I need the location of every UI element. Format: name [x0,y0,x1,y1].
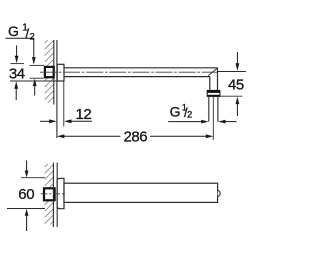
svg-text:45: 45 [228,77,244,94]
arm body (plan view) [64,183,218,202]
nut top extension line [30,64,45,66]
svg-text:G: G [170,104,181,120]
thread nut (plan view) [44,188,55,200]
dimension 12 right arrow [64,119,92,123]
outlet centerline (vertical dash-dot) [212,96,214,140]
dimension 34 upper arrow [15,46,19,64]
thread centerline (dash-dot, plan view) [41,193,67,195]
flange bottom extension line [10,80,57,82]
dimension 286 line with arrows [57,134,213,138]
dimension 45 top extension line [218,71,247,73]
svg-text:34: 34 [9,66,25,83]
outlet pipe left line [208,96,210,122]
dimension 45 lower arrow [236,97,240,116]
wall hatching (plan view) [45,164,54,225]
svg-text:286: 286 [123,128,147,145]
outlet nub at arm end (plan view) [218,190,220,196]
flange face extension line [63,81,65,127]
thread nut behind wall (side view) [45,67,54,77]
escutcheon flange (side view) [57,64,64,81]
svg-text:12: 12 [76,106,92,123]
svg-text:2: 2 [187,110,192,121]
dimension 60 lower arrow [25,209,29,231]
G 1/2 leader with arrow (outlet) [168,120,209,124]
dimension 45 bottom extension line [220,95,243,97]
outlet diameter right arrow [218,120,237,124]
wall surface line (side view, also extension line for 12 and 286) [56,40,58,138]
escutcheon flange (plan view) [57,178,64,208]
wall surface line (plan view) [56,163,58,228]
elbow outer edge [217,68,219,91]
collar nut on outlet [207,90,220,96]
G 1/2 leader line (top left) [5,38,35,64]
shower arm pipe top line [64,67,218,69]
elbow mitre line [208,69,217,76]
label G 1/2 (bottom, outlet thread) [170,103,193,121]
dimension 34 lower arrow [14,81,18,100]
elbow inner edge [209,77,211,91]
shower arm pipe bottom line [64,76,210,78]
svg-text:60: 60 [18,186,34,203]
wall inner line (side view) [53,40,55,105]
dimension 60 upper arrow [25,161,29,178]
arm centerline (dash-dot, side view) [40,71,218,73]
G 1/2 lower arrow (points at nut bottom) [33,79,37,96]
svg-text:G: G [8,23,19,39]
dimension 34 top extension line [11,63,25,65]
outlet pipe right line [217,96,219,122]
label G 1/2 (top left) [8,23,35,43]
dimension 60 top extension line [21,177,45,179]
wall hatching (side view) [45,40,54,103]
dimension 12 left arrow [40,119,57,123]
wall inner line (plan view) [52,163,54,228]
dimension 45 upper arrow [236,52,240,71]
nut bottom extension line [30,77,45,79]
dimension 60 bottom extension line [7,208,45,210]
